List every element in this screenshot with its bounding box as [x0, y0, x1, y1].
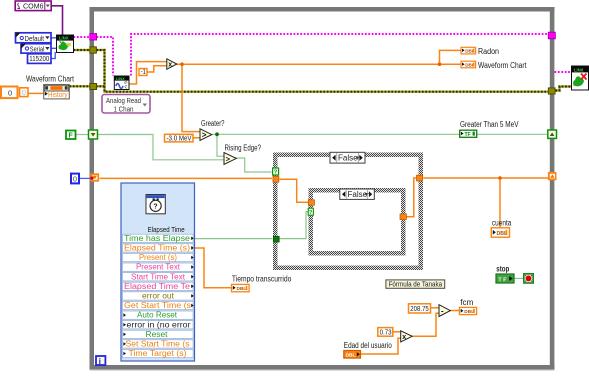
- svg-text:False: False: [348, 190, 368, 199]
- svg-text:Start Time Text: Start Time Text: [131, 272, 186, 281]
- svg-text:115200: 115200: [29, 54, 49, 63]
- svg-text:Present Text: Present Text: [136, 263, 181, 272]
- svg-text:Reset: Reset: [146, 330, 169, 339]
- svg-text:error out: error out: [142, 292, 175, 301]
- svg-text:Get Start Time (s: Get Start Time (s: [124, 301, 191, 310]
- svg-text:Time has Elapse: Time has Elapse: [124, 234, 190, 243]
- svg-text:0: 0: [73, 175, 77, 184]
- svg-text:?: ?: [274, 170, 278, 176]
- svg-text:COM6: COM6: [23, 1, 44, 10]
- svg-text:-3.0 MeV: -3.0 MeV: [167, 134, 192, 143]
- svg-text:Tiempo transcurrido: Tiempo transcurrido: [232, 275, 292, 284]
- svg-text:Fórmula de Tanaka: Fórmula de Tanaka: [389, 280, 443, 289]
- svg-text:-: -: [441, 306, 444, 315]
- svg-text:1 Chan: 1 Chan: [114, 104, 134, 113]
- svg-text:0.73: 0.73: [380, 328, 392, 337]
- svg-text:error in (no error: error in (no error: [127, 320, 191, 329]
- svg-text:Default: Default: [25, 34, 45, 43]
- svg-text:False: False: [338, 154, 358, 163]
- svg-text:Greater Than 5 MeV: Greater Than 5 MeV: [460, 120, 519, 129]
- svg-text:Edad del usuario: Edad del usuario: [344, 341, 392, 350]
- svg-text:i: i: [99, 356, 101, 366]
- svg-text:Radon: Radon: [478, 47, 499, 56]
- svg-text:Waveform Chart: Waveform Chart: [478, 61, 527, 70]
- svg-text:208.75: 208.75: [410, 304, 429, 313]
- svg-text:Rising Edge?: Rising Edge?: [225, 144, 262, 153]
- svg-text:Set Start Time (s: Set Start Time (s: [126, 340, 190, 349]
- svg-text:T F: T F: [498, 277, 507, 283]
- svg-text:-1: -1: [141, 69, 146, 76]
- svg-text:x: x: [402, 334, 406, 341]
- svg-text:Elapsed Time (s): Elapsed Time (s): [124, 244, 190, 253]
- svg-text:LINX: LINX: [116, 77, 125, 81]
- svg-text:Time Target (s): Time Target (s): [129, 349, 187, 358]
- svg-text:DBL: DBL: [464, 309, 474, 315]
- svg-text:Serial: Serial: [30, 44, 45, 53]
- svg-text:?: ?: [153, 204, 157, 211]
- svg-text:F: F: [69, 133, 74, 140]
- svg-text:History: History: [48, 90, 68, 99]
- svg-text:DBL: DBL: [346, 352, 356, 358]
- svg-text:DBL: DBL: [237, 286, 247, 292]
- svg-text:>: >: [202, 131, 207, 140]
- svg-text:cuenta: cuenta: [492, 218, 512, 227]
- svg-text:fcm: fcm: [460, 298, 473, 307]
- svg-text:0: 0: [22, 88, 26, 97]
- svg-text:Present (s): Present (s): [139, 253, 177, 262]
- svg-text:TF: TF: [465, 132, 471, 138]
- svg-text:Greater?: Greater?: [201, 119, 225, 128]
- svg-text:x: x: [168, 62, 172, 69]
- svg-text:Elapsed Time Te: Elapsed Time Te: [124, 282, 190, 291]
- svg-text:>: >: [226, 154, 231, 163]
- svg-text:Elapsed Time: Elapsed Time: [148, 225, 185, 234]
- svg-text:LINX: LINX: [59, 36, 69, 41]
- svg-text:stop: stop: [496, 265, 509, 274]
- svg-text:Waveform Chart: Waveform Chart: [26, 75, 75, 84]
- svg-text:0: 0: [8, 88, 12, 97]
- svg-text:LINX: LINX: [574, 67, 584, 72]
- svg-text:Auto Reset: Auto Reset: [137, 311, 178, 320]
